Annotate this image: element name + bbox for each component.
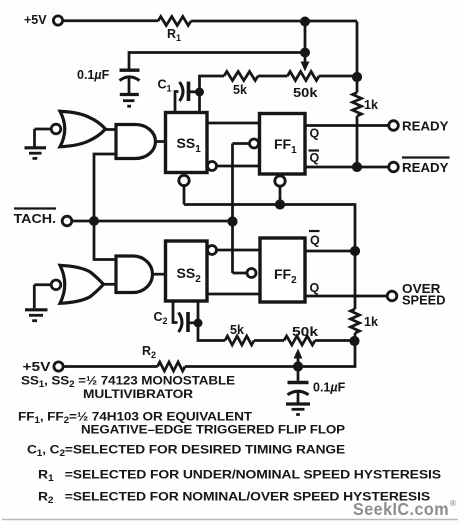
pin label Qbar (FF2) — [309, 231, 320, 248]
output READY terminal — [389, 120, 449, 134]
SS2 inverted output bubble (top) — [208, 246, 217, 255]
potentiometer 50k (bottom) — [284, 325, 318, 345]
FF2 clock input bubble — [247, 269, 256, 278]
svg-text:5k: 5k — [230, 323, 244, 337]
capacitor C2 — [154, 301, 195, 332]
svg-text:C1: C1 — [158, 78, 172, 94]
svg-text:SPEED: SPEED — [402, 294, 446, 308]
capacitor C1 — [158, 78, 197, 113]
wire +5V to R2 — [63, 365, 157, 368]
node junction dot (1k / READY-bar line) — [352, 162, 362, 172]
resistor 5k (top) — [224, 72, 258, 98]
ground (bottom bypass cap) — [286, 404, 310, 415]
wire 1k down across READY line to READY-bar node — [356, 116, 359, 167]
svg-text:TACH.: TACH. — [14, 212, 57, 226]
input TACH-bar terminal — [14, 209, 72, 227]
AND gate G4 (bottom) — [116, 256, 153, 293]
svg-text:1k: 1k — [364, 315, 378, 329]
svg-text:5k: 5k — [233, 83, 247, 97]
wiper arrow of 50k pot (bottom, pointing up) — [294, 349, 303, 367]
ground (top bypass cap) — [120, 95, 139, 107]
FF1 clear input bubble (bottom) — [275, 176, 285, 186]
clear line wire across to right rail — [184, 205, 355, 252]
wire FF2 Qbar to right rail — [305, 250, 355, 253]
node B junction dot (bypass cap / wiper arrow) — [300, 48, 310, 58]
scan artifact bottom edge line — [2, 519, 458, 521]
wire TACH rail riser to FF1 clock bubble — [233, 142, 250, 145]
output OVER SPEED terminal — [387, 282, 445, 308]
wire FF2 Q to OVER SPEED terminal — [305, 295, 387, 298]
wire G4 output to SS2 input — [153, 273, 166, 276]
wire G1 output to G2 input — [106, 128, 117, 131]
SS1 inverted output bubble — [208, 162, 217, 171]
wire R1 to right rail corner — [191, 20, 357, 23]
svg-text:R1: R1 — [167, 27, 181, 43]
svg-text:R2: R2 — [142, 344, 156, 360]
wire 50k pot to 1k node (bottom) — [315, 339, 355, 342]
node junction dot (TACH / gate risers) — [89, 216, 99, 226]
node junction dot (TACH / FF clock rail) — [227, 216, 237, 226]
output READY-bar terminal — [389, 158, 450, 176]
wire FF1 Qbar to READY-bar terminal — [305, 166, 389, 169]
svg-text:50k: 50k — [292, 325, 318, 339]
wire ground to NOR2 input bubble — [34, 283, 51, 286]
node junction dot (clear line / FF2 Qbar) — [350, 246, 360, 256]
wire +5V to R1 — [63, 19, 158, 22]
watermark SeekIC.com — [353, 499, 456, 519]
svg-text:SeekIC.com: SeekIC.com — [353, 499, 449, 519]
FF1 clock input bubble — [250, 139, 259, 148]
svg-text:Q: Q — [310, 151, 320, 165]
node junction dot (pot right / 1k bottom) — [349, 336, 359, 346]
wire C1 node up to 5k — [200, 76, 225, 92]
wire 5k to 50k pot (bottom) — [254, 339, 284, 342]
svg-text:MULTIVIBRATOR: MULTIVIBRATOR — [83, 387, 193, 401]
NOR gate G3 (negated-input OR, bottom) — [51, 265, 103, 303]
resistor 1k (bottom) — [351, 309, 378, 333]
svg-text:1k: 1k — [364, 98, 378, 112]
wire R2 to wiper node — [185, 365, 298, 368]
resistor 5k (bottom) — [225, 323, 254, 345]
svg-text:50k: 50k — [293, 86, 318, 100]
wiper arrow of 50k pot (top, pointing down) — [301, 53, 310, 72]
wire FF1 bottom bubble to clear line — [279, 186, 282, 204]
svg-text:C1​, C2​=SELECTED FOR DESIRED: C1​, C2​=SELECTED FOR DESIRED TIMING RAN… — [27, 443, 345, 459]
svg-text:+5V: +5V — [24, 13, 47, 27]
svg-text:R1​ =SELECTED FOR UNDER/NOMI: R1​ =SELECTED FOR UNDER/NOMINAL SPEED HY… — [38, 468, 441, 484]
wire TACH riser down to G4 upper input — [94, 221, 116, 260]
wire right rail down to 1k — [356, 22, 359, 93]
pin label Qbar (FF1) — [309, 151, 320, 166]
svg-text:Q: Q — [310, 127, 320, 141]
AND gate G2 (top) — [116, 125, 156, 159]
wire FF1 Q to READY terminal — [305, 124, 389, 127]
resistor 1k (top pull-up) — [353, 93, 378, 117]
wire bypass node to 0.1uF capacitor — [129, 53, 305, 69]
wire right rail down to 1k (bottom) — [354, 251, 357, 309]
wire C2 node up to SS2 pin — [197, 301, 200, 323]
wire SS2 Qbar to FF2 upper input — [217, 249, 261, 252]
node C2/Rext junction dot — [194, 319, 203, 328]
wire SS2 Q output to FF2 lower input — [207, 293, 260, 296]
wire 1k to bottom pot node — [354, 333, 357, 341]
svg-text:0.1µF: 0.1µF — [77, 68, 110, 82]
node junction dot (pot right / 1k top) — [352, 72, 362, 82]
flip-flop FF2 (1/2 74H103) — [260, 238, 305, 302]
flip-flop FF1 (1/2 74H103) — [260, 114, 306, 175]
svg-text:READY: READY — [402, 161, 449, 175]
ground (bottom NOR gate input) — [25, 285, 48, 321]
power +5V terminal (bottom left) — [23, 360, 64, 374]
power +5V terminal (top left) — [24, 13, 63, 27]
node junction dot (wiper / R2 / bypass cap) — [293, 361, 303, 371]
wire SS1 Qbar output to FF1 lower input — [217, 165, 260, 168]
TACH vertical rail (to both FF clocks) — [231, 144, 234, 274]
svg-text:NEGATIVE–EDGE TRIGGERED FLIP F: NEGATIVE–EDGE TRIGGERED FLIP FLOP — [81, 423, 345, 437]
node junction dot (FF1 clear stub on clear line) — [275, 199, 285, 209]
svg-text:C2: C2 — [154, 310, 168, 326]
wire G2 output to SS1 input — [156, 140, 166, 143]
svg-text:READY: READY — [402, 120, 449, 134]
svg-text:Q: Q — [310, 234, 320, 248]
wire G3 output to G4 input — [104, 283, 117, 286]
wire TACH rail to FF2 clock bubble — [233, 272, 247, 275]
wire SS1 bottom bubble to clear line — [183, 186, 186, 205]
wire TACH riser to G2 lower input — [94, 154, 116, 221]
wire wiper node to 1k node — [298, 341, 355, 367]
svg-text:0.1µF: 0.1µF — [313, 381, 346, 395]
NOR gate G1 (negated-input OR, top) — [51, 111, 105, 147]
wire C1 node down to SS1 pin — [198, 92, 201, 113]
monostable SS2 (1/2 74123) — [166, 241, 208, 301]
wire C2 node down to 5k (bottom) — [198, 323, 225, 341]
wire SS1 Q output to FF1 upper input — [207, 122, 260, 125]
svg-text:+5V: +5V — [23, 360, 52, 374]
capacitor 0.1uF (top bypass) — [77, 68, 140, 94]
wire TACH terminal to gates — [72, 220, 233, 223]
capacitor 0.1uF (bottom bypass) — [288, 367, 346, 404]
wire ground to NOR1 input bubble — [35, 128, 52, 131]
node A junction dot (top rail / wiper branch) — [300, 17, 310, 27]
monostable SS1 (1/2 74123) — [166, 113, 208, 173]
svg-text:Q: Q — [310, 281, 320, 295]
svg-text:®: ® — [450, 499, 456, 508]
node C1/Rext junction dot — [195, 88, 204, 97]
resistor R2 — [142, 344, 185, 371]
resistor R1 — [158, 17, 191, 44]
potentiometer 50k (top) — [288, 72, 320, 101]
wire 5k to 50k pot (top) — [258, 75, 288, 78]
wire branch down from top rail to bypass node — [304, 22, 307, 53]
ground (top NOR gate input) — [25, 129, 47, 158]
SS1 clear output bubble (bottom) — [179, 175, 189, 185]
wire 50k pot to right rail (top) — [319, 75, 357, 78]
